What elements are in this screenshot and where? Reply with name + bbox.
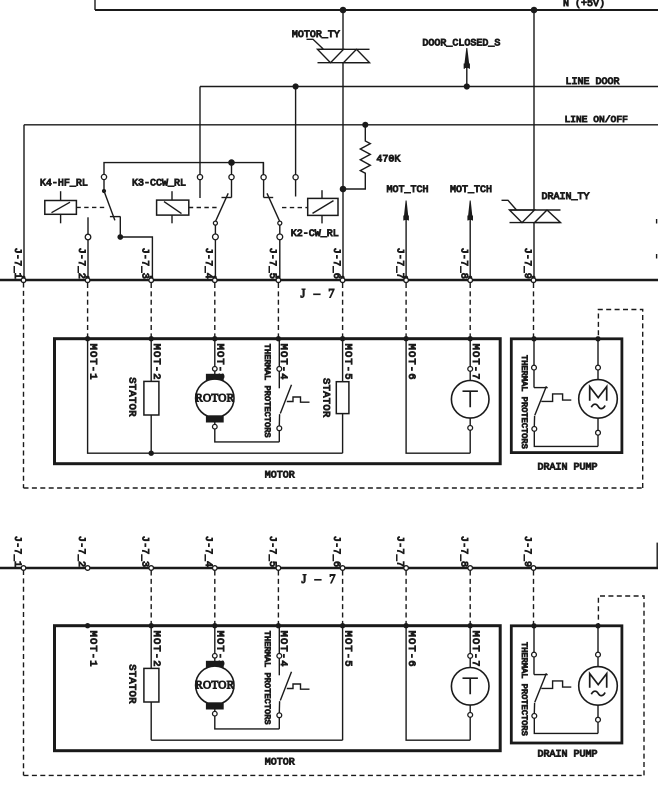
- node MOT-4 on box edge: [276, 336, 281, 341]
- wire MOT-2 upper lead: [150, 626, 152, 669]
- svg-text:DRAIN PUMP: DRAIN PUMP: [538, 462, 598, 473]
- contact K2 (switch): [262, 163, 264, 175]
- tachogenerator T (MOT-7): [451, 668, 489, 706]
- pin J-7_7 (lower bus): [404, 566, 409, 571]
- svg-text:MOTOR_TY: MOTOR_TY: [292, 30, 340, 41]
- wire dashed J-7_2 drop (upper): [87, 283, 89, 339]
- node DOOR_CLOSED_S on LINE DOOR: [464, 83, 470, 89]
- svg-text:J-7_2: J-7_2: [75, 536, 86, 568]
- wire stator common rail: [151, 452, 342, 454]
- terminal MOT-4 lower: [277, 426, 282, 431]
- wire MOTOR_TY cathode down to J-7_6: [342, 63, 344, 280]
- wire dashed J-7_5 drop (upper): [277, 283, 279, 339]
- node drain motor on box edge: [595, 336, 600, 341]
- rotor MOT-3: [196, 666, 234, 704]
- node rail to K3 common: [228, 159, 235, 166]
- svg-text:K2-CW_RL: K2-CW_RL: [291, 229, 339, 240]
- pin J-7_1 (upper bus): [22, 276, 26, 280]
- rotor brush top: [206, 661, 223, 667]
- terminal drain motor lower: [597, 705, 599, 717]
- svg-text:THERMAL PROTECTORS: THERMAL PROTECTORS: [519, 642, 529, 736]
- relay coil K2: [308, 198, 338, 215]
- pin J-7_9 (upper bus): [532, 276, 536, 280]
- svg-text:N (+5V): N (+5V): [563, 0, 605, 10]
- pin J-7_1 (lower bus): [21, 566, 26, 571]
- wire (cropped) right edge tick B: [656, 254, 658, 259]
- svg-text:DRAIN_TY: DRAIN_TY: [542, 192, 590, 203]
- terminal MOT-7 lower: [469, 418, 471, 425]
- contact K4 NC from J-7_2: [87, 217, 89, 234]
- wire rotor to thermal protector: [215, 429, 279, 442]
- wire MOT-1 conductor: [88, 339, 152, 454]
- wire drain bottom rail: [534, 431, 598, 446]
- terminal MOT-7: [468, 654, 473, 659]
- pin J-7_4 (upper bus): [213, 276, 217, 280]
- svg-text:MOT_TCH: MOT_TCH: [450, 185, 492, 196]
- svg-text:MOTOR: MOTOR: [265, 758, 295, 769]
- box MOTOR outline (upper): [55, 339, 501, 464]
- svg-text:STATOR: STATOR: [126, 664, 138, 704]
- terminal MOT-3 lower: [214, 422, 216, 424]
- wire dashed J-7_8 drop (upper): [469, 283, 471, 339]
- relay coil K3: [157, 200, 189, 215]
- node LINE ON/OFF to 470K: [362, 122, 368, 128]
- wire MOT-5 lower lead: [342, 414, 344, 454]
- svg-text:MOT_TCH: MOT_TCH: [387, 185, 429, 196]
- svg-text:J-7_1: J-7_1: [11, 536, 22, 568]
- box DRAIN PUMP outline (upper): [511, 339, 622, 453]
- contact K3 NC terminal: [197, 175, 202, 180]
- svg-text:J-7_7: J-7_7: [394, 536, 405, 568]
- sensor arrow DOOR_CLOSED_S: [466, 66, 468, 87]
- terminal drain motor lower: [597, 418, 599, 430]
- wire MOT-4 lead: [278, 626, 280, 654]
- node MOT-2 on box edge: [149, 336, 154, 341]
- terminal MOT-3 lower: [214, 709, 216, 711]
- terminal MOT-3: [213, 654, 218, 659]
- wire DRAIN_TY anode from N: [533, 10, 535, 210]
- pin J-7_6 (lower bus): [340, 566, 345, 571]
- wire drain thermal upper lead: [533, 339, 535, 365]
- contact K4 (switch): [101, 174, 106, 179]
- pump motor M: [579, 380, 618, 419]
- wire dashed J-7_6 drop (upper): [342, 283, 344, 339]
- svg-text:J-7_6: J-7_6: [330, 248, 341, 280]
- stator winding MOT-2: [144, 668, 159, 702]
- svg-text:J – 7: J – 7: [302, 572, 339, 586]
- node MOT-6 on box edge: [403, 623, 408, 628]
- wire dashed J-7_3 drop (upper): [150, 283, 152, 339]
- node MOT-1/MOT-2 junction: [149, 451, 154, 456]
- svg-text:J-7_3: J-7_3: [139, 248, 150, 280]
- node MOT-3 on box edge: [212, 336, 217, 341]
- terminal MOT-7: [468, 367, 473, 372]
- link dashed K2 contact to coil: [282, 207, 308, 209]
- svg-text:ROTOR: ROTOR: [195, 393, 234, 405]
- thermal protector switch (drain): [534, 387, 548, 389]
- pin J-7_3 (upper bus): [149, 276, 153, 280]
- node LINE DOOR to K2 contact: [293, 83, 299, 89]
- wire rotor to thermal protector: [215, 716, 279, 729]
- rotor brush top: [206, 374, 223, 380]
- wire MOT-6 conductor: [406, 339, 470, 454]
- stator winding MOT-2: [144, 381, 159, 415]
- svg-text:DRAIN PUMP: DRAIN PUMP: [538, 749, 598, 760]
- pin J-7_6 (upper bus): [341, 276, 345, 280]
- node drain motor on box edge: [595, 623, 600, 628]
- pin J-7_2 (upper bus): [86, 276, 90, 280]
- terminal MOT-4: [277, 367, 282, 372]
- pin J-7_9 (lower bus): [531, 566, 536, 571]
- wire MOT-6 conductor: [406, 626, 470, 741]
- node MOT-2 on box edge: [149, 623, 154, 628]
- node MOT-5 on box edge: [340, 336, 345, 341]
- wire dashed J-7_8 drop (lower): [469, 571, 471, 626]
- link dashed K4 coil to contact: [76, 206, 105, 208]
- svg-text:DOOR_CLOSED_S: DOOR_CLOSED_S: [422, 38, 500, 49]
- svg-text:J-7_1: J-7_1: [11, 248, 22, 280]
- wire drain bottom rail: [534, 718, 598, 733]
- node MOT-7 on box edge: [468, 336, 473, 341]
- machine dashed outline bottom (upper): [24, 487, 643, 489]
- terminal drain motor upper: [596, 652, 601, 657]
- wire MOT-5 upper lead: [342, 626, 344, 741]
- svg-text:J-7_7: J-7_7: [394, 248, 405, 280]
- terminal drain thermal lower: [532, 714, 537, 719]
- node N junction at DRAIN_TY: [531, 7, 538, 14]
- terminal MOT-4 lower: [277, 713, 282, 718]
- svg-text:J-7_2: J-7_2: [75, 248, 86, 280]
- pin J-7_5 (lower bus): [276, 566, 281, 571]
- wire (cropped) next connector right edge (lower): [656, 543, 658, 568]
- svg-text:THERMAL PROTECTORS: THERMAL PROTECTORS: [262, 631, 272, 725]
- pin J-7_8 (lower bus): [468, 566, 473, 571]
- wire drain motor upper lead: [597, 626, 599, 652]
- wire LINE DOOR: [200, 86, 658, 88]
- triac DRAIN_TY: [502, 200, 517, 210]
- rotor brush bottom: [206, 416, 223, 422]
- svg-text:ROTOR: ROTOR: [195, 680, 234, 692]
- node MOT-3 on box edge: [212, 623, 217, 628]
- wire dashed J-7_9 drop (lower): [533, 571, 535, 626]
- wire MOT-2 lower lead: [150, 415, 152, 453]
- node MOTOR_TY / 470K junction: [340, 186, 347, 193]
- wire LINE ON/OFF: [24, 124, 658, 126]
- wire MOTOR_TY anode from N: [342, 10, 344, 49]
- wire MOT-4 lead: [278, 339, 280, 367]
- svg-text:MOT-1: MOT-1: [86, 631, 98, 668]
- svg-text:THERMAL PROTECTORS: THERMAL PROTECTORS: [262, 344, 272, 438]
- wire MOT-2 lower lead: [150, 702, 152, 740]
- svg-text:J-7_9: J-7_9: [521, 536, 532, 568]
- wire dashed machine outline left / J-7_1 drop (upper): [23, 283, 25, 489]
- terminal drain thermal lower: [532, 427, 537, 432]
- sensor arrow MOT_TCH (J-7_8): [469, 218, 471, 280]
- contact K3 (switch): [231, 163, 233, 175]
- svg-text:J-7_8: J-7_8: [458, 248, 469, 280]
- wire MOT-3 lead: [214, 339, 216, 367]
- pin J-7_3 (lower bus): [149, 566, 154, 571]
- svg-text:MOTOR: MOTOR: [265, 471, 295, 482]
- svg-text:J-7_8: J-7_8: [458, 536, 469, 568]
- pin J-7_2 (lower bus): [85, 566, 90, 571]
- relay coil K4: [45, 201, 77, 215]
- wire MOT-5 upper lead: [342, 339, 344, 382]
- svg-text:STATOR: STATOR: [126, 377, 138, 417]
- terminal drain thermal upper: [532, 652, 537, 657]
- rotor brush bottom: [206, 703, 223, 709]
- wire J-7_1 to LINE ON/OFF: [23, 125, 25, 280]
- pin J-7_8 (upper bus): [468, 276, 472, 280]
- wire dashed J-7_9 drop (upper): [533, 283, 535, 339]
- node drain thermal on box edge: [531, 623, 536, 628]
- wire dashed J-7_4 drop (upper): [214, 283, 216, 339]
- stator winding MOT-5: [336, 382, 349, 414]
- pin J-7_7 (upper bus): [404, 276, 408, 280]
- svg-text:J-7_5: J-7_5: [266, 248, 277, 280]
- node N junction at MOTOR_TY: [340, 7, 347, 14]
- wire dashed J-7_4 drop (lower): [214, 571, 216, 626]
- machine dashed outline right (upper): [598, 310, 642, 489]
- link dashed K3 coil to contact: [189, 207, 220, 209]
- box MOTOR outline (lower): [55, 626, 501, 751]
- bus J-7 (lower): [0, 567, 658, 570]
- svg-text:J – 7: J – 7: [301, 286, 338, 300]
- wire stator common rail: [151, 739, 342, 741]
- svg-text:LINE ON/OFF: LINE ON/OFF: [565, 114, 629, 125]
- wire DRAIN_TY cathode down to J-7_9: [533, 223, 535, 280]
- wire K4 contact to J-7_3: [120, 237, 152, 280]
- pump motor M: [579, 667, 618, 706]
- wire dashed machine outline left / J-7_1 drop (lower): [23, 570, 25, 775]
- wire dashed J-7_3 drop (lower): [150, 571, 152, 626]
- node MOT-4 on box edge: [276, 623, 281, 628]
- wire dashed J-7_5 drop (lower): [277, 571, 279, 626]
- wire drain motor upper lead: [597, 339, 599, 365]
- wire dashed J-7_6 drop (lower): [342, 571, 344, 626]
- svg-text:J-7_3: J-7_3: [139, 536, 150, 568]
- terminal MOT-3: [213, 367, 218, 372]
- node MOT-5 on box edge: [340, 623, 345, 628]
- node MOT-1 on box edge: [85, 623, 90, 628]
- svg-text:K3-CCW_RL: K3-CCW_RL: [132, 179, 186, 190]
- bus J-7 (upper): [0, 279, 658, 282]
- svg-text:LINE DOOR: LINE DOOR: [566, 77, 620, 88]
- svg-text:K4-HF_RL: K4-HF_RL: [40, 179, 88, 190]
- terminal MOT-7 lower: [469, 705, 471, 712]
- svg-text:J-7_6: J-7_6: [330, 536, 341, 568]
- terminal drain thermal upper: [532, 365, 537, 370]
- tachogenerator T (MOT-7): [451, 381, 489, 419]
- svg-text:J-7_4: J-7_4: [202, 248, 213, 280]
- svg-text:THERMAL PROTECTORS: THERMAL PROTECTORS: [519, 355, 529, 449]
- pin J-7_4 (lower bus): [213, 566, 218, 571]
- terminal MOT-4: [277, 654, 282, 659]
- thermal protector switch (drain): [534, 674, 548, 676]
- wire MOT-3 lead: [214, 626, 216, 654]
- wire drain thermal upper lead: [533, 626, 535, 652]
- machine dashed outline right (lower): [598, 596, 644, 775]
- contact K2 NC terminal: [293, 175, 298, 180]
- sensor arrow MOT_TCH (J-7_7): [405, 218, 407, 280]
- resistor 470K: [344, 125, 371, 189]
- wire MOT-7 lead: [469, 339, 471, 367]
- svg-text:J-7_5: J-7_5: [266, 536, 277, 568]
- wire (cropped) right edge tick A: [656, 219, 658, 224]
- rotor MOT-3: [196, 379, 234, 417]
- svg-text:470K: 470K: [376, 155, 400, 166]
- pin J-7_5 (upper bus): [276, 276, 280, 280]
- wire control-board box corner (top left): [94, 0, 96, 10]
- wire MOT-7 lead: [469, 626, 471, 654]
- svg-text:J-7_9: J-7_9: [521, 248, 532, 280]
- wire K2 contact to J-7_5: [279, 240, 281, 280]
- svg-text:J-7_4: J-7_4: [202, 536, 213, 568]
- triac MOTOR_TY: [307, 39, 324, 49]
- wire LINE DOOR drop to K2 NC contact: [295, 87, 297, 175]
- wire LINE DOOR drop to K3 NC contact: [199, 87, 201, 175]
- node drain thermal on box edge: [531, 336, 536, 341]
- node MOT-1 on box edge: [85, 336, 90, 341]
- wire MOT-2 upper lead: [150, 339, 152, 382]
- node MOT-6 on box edge: [403, 336, 408, 341]
- wire dashed J-7_7 drop (upper): [405, 283, 407, 339]
- wire N (+5V) rail: [95, 9, 658, 11]
- box DRAIN PUMP outline (lower): [511, 626, 622, 743]
- svg-text:STATOR: STATOR: [320, 378, 332, 418]
- wire dashed J-7_7 drop (lower): [405, 571, 407, 626]
- wire K3 contact to J-7_4: [214, 240, 216, 280]
- wire contact common rail: [104, 163, 263, 175]
- thermal protector switch (motor): [280, 385, 291, 414]
- node MOT-7 on box edge: [468, 623, 473, 628]
- machine dashed outline bottom (lower): [24, 774, 645, 776]
- terminal drain motor upper: [596, 365, 601, 370]
- thermal protector switch (motor): [280, 672, 291, 701]
